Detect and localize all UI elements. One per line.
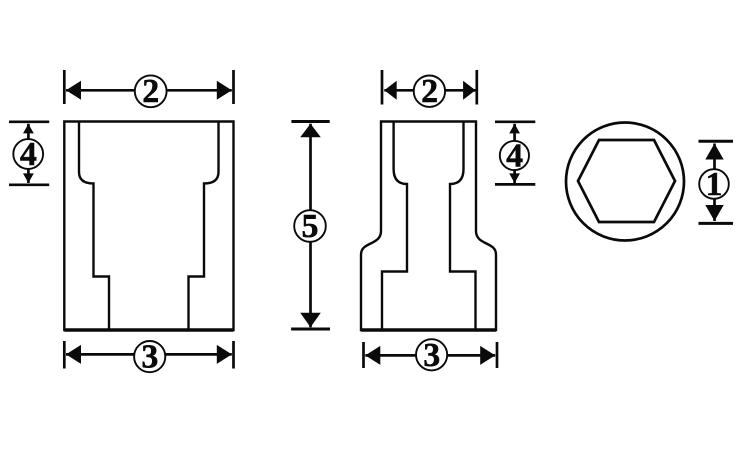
svg-text:3: 3 <box>141 339 158 376</box>
svg-text:3: 3 <box>423 337 440 374</box>
svg-text:2: 2 <box>421 73 438 110</box>
svg-text:1: 1 <box>706 166 723 203</box>
svg-text:2: 2 <box>142 73 159 110</box>
svg-text:4: 4 <box>506 138 523 175</box>
svg-text:4: 4 <box>20 136 37 173</box>
svg-text:5: 5 <box>302 208 319 245</box>
